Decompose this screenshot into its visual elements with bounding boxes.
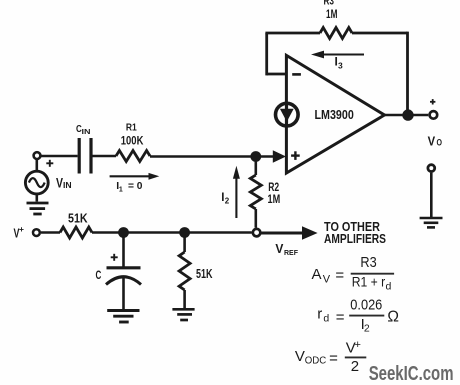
node VREF open circle (253, 229, 261, 237)
resistor R2 vertical zigzag (250, 175, 261, 209)
svg-text:V: V (428, 134, 436, 149)
junction dot: bottom rail at C (118, 227, 129, 238)
svg-text:ODC: ODC (305, 355, 327, 367)
terminal: output ground reference circle (428, 165, 435, 172)
current source circle inside op-amp (276, 103, 299, 126)
wire: 51K to VREF node (92, 231, 252, 234)
equation VODC = V+/2 (295, 339, 366, 375)
svg-text:=: = (335, 267, 344, 284)
wire: R1 to plus-input junction (150, 155, 275, 158)
wire: R2 from plus junction down to VREF (255, 157, 258, 176)
source VIN: terminal circle (34, 152, 41, 159)
svg-text:SeekIC.com: SeekIC.com (369, 363, 454, 385)
svg-text:0.026: 0.026 (350, 296, 382, 313)
arrowhead I2 (233, 166, 240, 179)
terminal Vo open circle (430, 111, 438, 119)
arrow I1 shaft (110, 175, 149, 177)
wire: V+ to 51K (41, 231, 60, 234)
arrow I3 shaft (322, 53, 364, 55)
ground under Vo terminal (420, 218, 443, 227)
feedback wire: right vertical down to output (406, 32, 409, 115)
ground under C (107, 311, 139, 323)
arrowhead I3 (311, 51, 324, 59)
svg-text:1M: 1M (326, 7, 337, 21)
wire: VIN terminal to CIN (40, 155, 78, 158)
svg-text:V: V (275, 241, 283, 256)
svg-text:R1 + r: R1 + r (352, 274, 386, 290)
svg-text:= 0: = 0 (128, 180, 143, 192)
svg-text:=: = (336, 309, 345, 326)
arrowhead into plus input (273, 150, 286, 163)
ground under VIN source (27, 203, 49, 214)
feedback wire: top left to R3 (265, 32, 320, 35)
wire: CIN to R1 (93, 155, 117, 158)
svg-text:C: C (96, 268, 102, 282)
svg-text:A: A (312, 266, 322, 283)
svg-text:+: + (19, 224, 24, 234)
capacitor CIN plates (78, 138, 81, 174)
wire: op-amp output to terminal Vo (384, 114, 428, 117)
svg-text:R3: R3 (360, 254, 376, 271)
junction dot: output (402, 109, 413, 120)
svg-text:51K: 51K (68, 211, 88, 225)
plus sign above Vo terminal (430, 99, 435, 104)
feedback wire: left vertical (265, 33, 268, 75)
feedback wire: R3 to right vertical (352, 32, 408, 35)
resistor 51K vertical zigzag (179, 252, 190, 290)
capacitor C top plate (107, 266, 141, 269)
svg-text:IN: IN (63, 181, 72, 190)
junction dot: plus input (250, 151, 261, 162)
plus sign at VIN terminal (46, 160, 53, 167)
op-amp U1 triangle (286, 55, 384, 173)
svg-text:3: 3 (338, 60, 343, 70)
equation rd = 0.026/I2 (317, 296, 399, 334)
svg-text:Ω: Ω (387, 309, 399, 326)
svg-text:1: 1 (119, 187, 123, 194)
svg-text:2: 2 (225, 196, 230, 205)
junction dot: bottom rail at 51K (179, 227, 190, 238)
wire: R2 to VREF circle (255, 209, 258, 228)
equation AV = R3/(R1+rd) (312, 254, 395, 293)
sine wave inside source (29, 178, 45, 187)
wire: C to ground (122, 278, 125, 310)
resistor 51K horizontal zigzag (60, 227, 92, 238)
svg-text:O: O (437, 138, 443, 148)
resistor R1 zigzag (116, 151, 150, 162)
capacitor C curved plate (106, 277, 141, 285)
svg-text:IN: IN (82, 129, 91, 136)
terminal V+ (33, 229, 40, 236)
svg-text:AMPLIFIERS: AMPLIFIERS (324, 232, 386, 246)
plus sign above capacitor C (111, 254, 118, 261)
arrowhead to other amplifiers (302, 226, 318, 239)
wire: 51K to ground (183, 290, 186, 308)
feedback wire: minus input horizontal (267, 73, 287, 76)
svg-text:2: 2 (364, 322, 370, 334)
wire: junction down to capacitor C (122, 233, 125, 268)
svg-text:r: r (317, 305, 322, 322)
svg-text:d: d (386, 281, 392, 293)
svg-text:d: d (323, 313, 329, 325)
minus sign at op-amp inverting input (292, 73, 301, 76)
svg-text:=: = (329, 350, 338, 367)
svg-text:V: V (295, 348, 305, 365)
svg-text:1M: 1M (268, 192, 281, 206)
wire: terminal to AC source (35, 160, 38, 172)
wire: source to ground (35, 194, 38, 202)
svg-text:REF: REF (284, 248, 298, 257)
resistor R3 zigzag (320, 28, 352, 39)
arrow I2 shaft (235, 177, 237, 218)
wire: junction down to vertical 51K (183, 233, 186, 253)
svg-text:100K: 100K (121, 136, 144, 148)
svg-text:V: V (323, 273, 331, 285)
AC source circle (25, 171, 48, 194)
svg-text:2: 2 (351, 358, 359, 375)
current source arrow inside circle (280, 109, 294, 122)
plus sign at op-amp non-inverting input (291, 151, 300, 160)
arrowhead I1 (149, 173, 160, 180)
svg-text:+: + (355, 339, 361, 351)
svg-text:51K: 51K (196, 267, 213, 281)
ground under vertical 51K (172, 309, 194, 320)
arrow VREF to other amplifiers shaft (261, 232, 303, 235)
svg-text:LM3900: LM3900 (315, 107, 354, 122)
wire: terminal to ground (430, 173, 433, 217)
svg-text:R1: R1 (126, 121, 137, 133)
wire stub through current source (286, 103, 289, 126)
